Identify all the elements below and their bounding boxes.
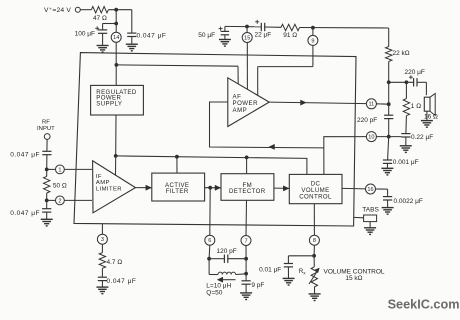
svg-text:INPUT: INPUT — [37, 126, 55, 132]
svg-text:47 Ω: 47 Ω — [93, 15, 107, 22]
svg-text:14: 14 — [113, 35, 119, 41]
svg-text:10: 10 — [368, 135, 374, 141]
svg-text:0.047 μF: 0.047 μF — [10, 210, 40, 217]
svg-text:120 pF: 120 pF — [217, 248, 237, 255]
svg-text:9 pF: 9 pF — [251, 282, 264, 289]
svg-text:0.001 μF: 0.001 μF — [393, 159, 419, 166]
svg-text:15: 15 — [244, 35, 250, 41]
svg-text:AMP: AMP — [233, 107, 248, 114]
svg-text:DETECTOR: DETECTOR — [229, 188, 266, 195]
svg-text:50 μF: 50 μF — [198, 32, 215, 39]
svg-text:91 Ω: 91 Ω — [283, 32, 297, 39]
svg-text:7: 7 — [244, 238, 247, 244]
svg-text:3: 3 — [101, 237, 104, 243]
svg-text:22 μF: 22 μF — [255, 31, 272, 38]
svg-text:SUPPLY: SUPPLY — [96, 101, 122, 108]
svg-text:1: 1 — [58, 167, 61, 173]
svg-text:SeekIC.com: SeekIC.com — [388, 297, 460, 311]
svg-text:RF: RF — [42, 119, 50, 125]
svg-text:0.047 μF: 0.047 μF — [107, 278, 137, 285]
svg-text:4.7 Ω: 4.7 Ω — [107, 259, 123, 266]
svg-text:IF: IF — [96, 174, 102, 180]
svg-text:POWER: POWER — [233, 100, 259, 107]
svg-text:0.047 μF: 0.047 μF — [10, 152, 40, 159]
svg-text:CONTROL: CONTROL — [299, 194, 332, 201]
svg-text:0.0022 μF: 0.0022 μF — [394, 198, 423, 205]
svg-text:220 pF: 220 pF — [357, 117, 377, 124]
svg-text:1 Ω: 1 Ω — [411, 103, 421, 110]
svg-text:0.01 μF: 0.01 μF — [259, 267, 281, 274]
svg-text:0.047 μF: 0.047 μF — [137, 33, 167, 40]
svg-text:15 kΩ: 15 kΩ — [345, 275, 362, 282]
svg-text:Q=50: Q=50 — [206, 289, 222, 296]
svg-text:9: 9 — [311, 38, 314, 44]
svg-text:TABS: TABS — [362, 207, 379, 214]
svg-text:AMP: AMP — [96, 180, 110, 186]
svg-text:V⁺=24 V: V⁺=24 V — [44, 7, 71, 14]
svg-text:11: 11 — [368, 102, 374, 108]
svg-text:50 Ω: 50 Ω — [53, 183, 67, 190]
svg-text:220 μF: 220 μF — [405, 69, 425, 76]
svg-text:100 μF: 100 μF — [75, 30, 95, 37]
svg-text:LIMITER: LIMITER — [96, 186, 122, 192]
svg-text:6: 6 — [208, 238, 211, 244]
svg-text:8: 8 — [313, 238, 316, 244]
svg-text:16: 16 — [367, 187, 373, 193]
svg-text:16 Ω: 16 Ω — [424, 113, 438, 120]
svg-text:FILTER: FILTER — [166, 188, 189, 195]
svg-text:22 kΩ: 22 kΩ — [393, 50, 410, 57]
svg-text:0.22 μF: 0.22 μF — [411, 134, 433, 141]
svg-text:2: 2 — [58, 198, 61, 204]
